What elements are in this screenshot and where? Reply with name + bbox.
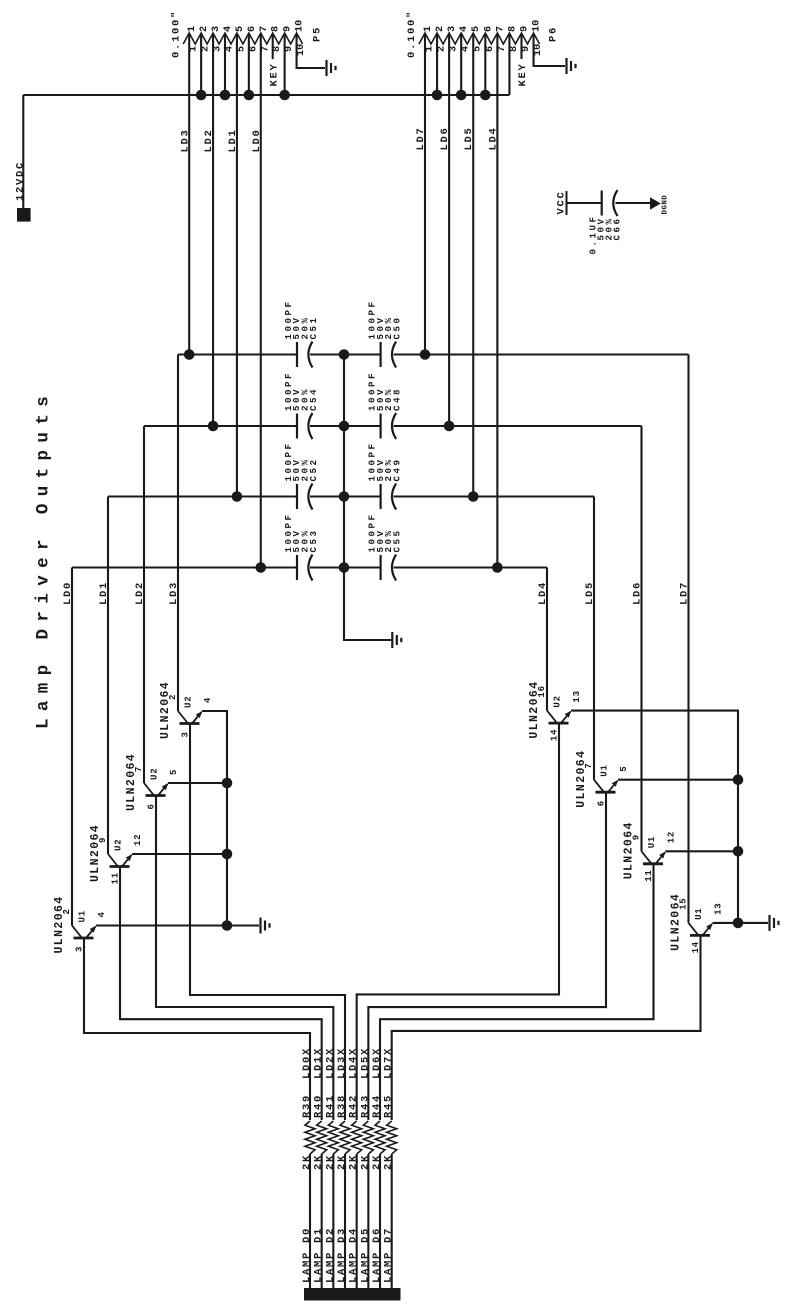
wire row4 right segment [394,566,547,568]
svg-text:C52: C52 [308,457,319,481]
wire row1 left segment [178,353,297,355]
capacitor C66 0.1UF [602,190,618,216]
svg-text:15: 15 [679,897,689,909]
svg-text:LAMP_D6: LAMP_D6 [371,1227,383,1283]
svg-text:4: 4 [459,26,470,32]
wire LD6 drop to U1 T7 [640,426,642,851]
svg-text:C51: C51 [308,315,319,339]
wire P5 pin5 LD1 [236,34,238,497]
transistor U2 ULN2064 (pins 9/12/11) [108,854,132,867]
svg-text:8: 8 [507,26,518,32]
svg-text:C53: C53 [308,528,319,552]
wire U2 T3 base to LD2X [156,796,333,1121]
svg-text:R45: R45 [383,1094,395,1118]
wire row1 middle segment [310,353,381,355]
wire R40 to LAMP_D1 [321,1154,323,1288]
svg-text:ULN2064: ULN2064 [89,824,102,882]
svg-text:U2: U2 [184,696,194,708]
ground center [392,632,401,648]
svg-text:C49: C49 [392,457,403,481]
svg-text:13: 13 [714,902,724,914]
svg-text:3: 3 [213,46,224,52]
svg-text:12: 12 [667,831,677,843]
wire row4 left segment [72,566,297,568]
svg-text:9: 9 [632,834,642,840]
svg-text:LD6: LD6 [439,126,451,150]
capacitor C55 100PF [381,555,397,581]
capacitor C51 100PF [297,342,313,368]
svg-text:R42: R42 [348,1094,360,1118]
junction row2 left [208,421,219,432]
resistor R40 2K [317,1121,327,1154]
wire P6 pin2 to rail [436,34,438,95]
junction left bus 2 [222,849,233,860]
svg-text:C50: C50 [392,315,403,339]
junction right bus 2 [733,846,744,857]
junction row3 right [468,491,479,502]
wire R42 to LAMP_D4 [356,1154,358,1288]
svg-text:13: 13 [572,690,582,702]
svg-text:R44: R44 [371,1094,383,1118]
svg-text:7: 7 [134,766,144,772]
svg-text:7: 7 [259,26,270,32]
wire U2 T2 emitter [132,853,227,855]
svg-text:LD4X: LD4X [348,1047,360,1079]
power symbol DGND arrow [650,197,661,210]
wire P6 pin9 KEY stub [520,34,522,59]
wire U1 T6 emitter [618,779,738,781]
wire U2 T3 emitter [168,782,227,784]
wire row3 middle segment [310,495,381,497]
svg-text:7: 7 [497,46,508,52]
svg-text:LD4: LD4 [487,126,499,150]
wire P5 pin8 KEY stub [272,34,274,59]
svg-text:U2: U2 [553,695,563,707]
junction row2 center [339,421,350,432]
svg-text:R43: R43 [359,1094,371,1118]
junction row1 left [184,349,195,360]
junction right bus 3 [733,918,744,929]
svg-text:4: 4 [461,46,472,52]
svg-text:R38: R38 [336,1094,348,1118]
svg-text:P5: P5 [312,26,324,42]
connector P6 body [419,33,540,44]
resistor R44 2K [375,1121,385,1154]
wire P5 pin10 to ground [297,34,325,68]
junction row2 right [444,421,455,432]
svg-text:U1: U1 [694,907,704,919]
svg-text:P6: P6 [548,26,560,42]
svg-text:2K: 2K [383,1154,395,1170]
svg-text:0.100": 0.100" [406,10,418,58]
svg-text:LD3: LD3 [168,581,180,605]
svg-text:2: 2 [62,908,72,914]
capacitor C53 100PF [297,555,313,581]
wire row2 middle segment [310,425,381,427]
junction row3 left [232,491,243,502]
wire P5 pin2 to rail [200,34,202,95]
transistor U1 ULN2064 (pins 15/13/14) [689,923,713,936]
junction left bus 1 [222,778,233,789]
svg-text:7: 7 [584,762,594,768]
svg-text:3: 3 [211,26,222,32]
svg-text:10: 10 [533,44,544,56]
svg-text:LAMP_D2: LAMP_D2 [324,1227,336,1283]
svg-text:VCC: VCC [556,190,568,214]
wire LD4 drop to U2 T5 [546,568,548,711]
svg-text:U1: U1 [647,836,657,848]
capacitor C52 100PF [297,484,313,510]
svg-text:LD1X: LD1X [313,1047,325,1079]
svg-text:1: 1 [187,26,198,32]
svg-text:2: 2 [199,26,210,32]
svg-text:6: 6 [248,46,259,52]
capacitor C54 100PF [297,413,313,439]
svg-text:R39: R39 [301,1094,313,1118]
svg-text:2K: 2K [336,1154,348,1170]
svg-text:U2: U2 [150,768,160,780]
transistor U2 ULN2064 (pins 2/4/3) [178,711,202,724]
svg-text:DGND: DGND [662,195,670,215]
wire P6 pin5 LD5 [472,34,474,497]
svg-text:LD1: LD1 [98,581,110,605]
wire U1 T7 base to LD6X [380,864,653,1120]
transistor U2 ULN2064 (pins 16/13/14) [547,711,571,724]
svg-text:1: 1 [189,46,200,52]
junction P5 pin9 on rail [279,90,290,101]
svg-text:C55: C55 [392,528,403,552]
svg-text:LD5: LD5 [584,581,596,605]
svg-text:10: 10 [296,44,307,56]
svg-text:1: 1 [423,26,434,32]
wire P6 pin8 to rail end [508,34,510,95]
wire VCC to C66 [567,202,602,204]
ground right emitters [770,915,779,931]
svg-text:6: 6 [247,26,258,32]
wire U1 T1 base to LD0X [84,938,310,1120]
wire row3 right segment [394,495,594,497]
svg-text:LD7: LD7 [679,581,691,605]
svg-text:2: 2 [201,46,212,52]
svg-text:LAMP_D4: LAMP_D4 [348,1227,360,1283]
svg-text:ULN2064: ULN2064 [575,750,588,808]
wire C66 to DGND [616,202,651,204]
wire row4 middle segment [310,566,381,568]
svg-text:LD0X: LD0X [301,1047,313,1079]
svg-text:16: 16 [537,685,547,697]
wire R45 to LAMP_D7 [391,1154,393,1288]
svg-text:9: 9 [521,46,532,52]
resistor R43 2K [363,1121,373,1154]
svg-text:1: 1 [425,46,436,52]
svg-text:9: 9 [284,46,295,52]
svg-text:LD6: LD6 [632,581,644,605]
transistor U1 ULN2064 (pins 7/5/6) [594,780,618,793]
ground left emitters [261,918,270,934]
svg-text:LD2: LD2 [203,128,215,152]
wire P6 pin10 to ground [534,34,565,66]
junction row4 center [339,562,350,573]
svg-text:7: 7 [260,46,271,52]
wire P6 pin6 to rail [484,34,486,95]
wire U1 T8 base to LD7X [392,935,701,1120]
wire LD0 drop to U1 T1 [71,568,73,926]
wire row2 right segment [394,425,642,427]
svg-text:9: 9 [519,26,530,32]
svg-text:2K: 2K [348,1154,360,1170]
svg-text:5: 5 [619,765,629,771]
wire +12V rail [23,94,509,96]
wire LD2 drop to U2 T3 [143,426,145,783]
svg-text:9: 9 [98,837,108,843]
wire left emitter bus [202,711,227,926]
wire P5 pin6 to rail [248,34,250,95]
svg-text:R40: R40 [313,1094,325,1118]
junction right bus 1 [733,774,744,785]
svg-text:LD5: LD5 [463,126,475,150]
wire P6 pin4 to rail [460,34,462,95]
svg-text:0.100": 0.100" [171,10,183,58]
resistor R42 2K [352,1121,362,1154]
junction P5 pin4 on rail [220,90,231,101]
svg-text:LD0: LD0 [251,128,263,152]
wire R41 to LAMP_D2 [332,1154,334,1288]
svg-text:R41: R41 [324,1094,336,1118]
wire U2 T4 base to LD3X [190,724,345,1121]
wire LD7 drop to U1 T8 [687,355,689,923]
wire U1 T1 emitter to ground [96,924,259,926]
svg-text:2K: 2K [359,1154,371,1170]
wire U1 T6 base to LD5X [368,792,606,1120]
svg-text:LD3: LD3 [179,128,191,152]
resistor R41 2K [328,1121,338,1154]
wire R44 to LAMP_D6 [379,1154,381,1288]
svg-text:LAMP_D5: LAMP_D5 [359,1227,371,1283]
svg-text:2K: 2K [301,1154,313,1170]
junction row1 center [339,349,350,360]
junction P5 pin2 on rail [196,90,207,101]
ground P5 [327,60,336,76]
wire P6 pin1 LD7 [424,34,426,355]
svg-text:ULN2064: ULN2064 [623,821,636,879]
ground P6 [567,58,576,74]
svg-text:LD2X: LD2X [324,1047,336,1079]
svg-text:6: 6 [483,26,494,32]
svg-text:KEY: KEY [517,62,529,86]
resistor R45 2K [387,1121,397,1154]
svg-text:12: 12 [133,834,143,846]
svg-text:5: 5 [471,26,482,32]
junction row1 right [420,349,431,360]
svg-text:U1: U1 [600,764,610,776]
wire row1 right segment [394,353,689,355]
junction P5 pin6 on rail [244,90,255,101]
svg-text:10: 10 [532,20,543,32]
svg-text:2: 2 [435,26,446,32]
transistor U2 ULN2064 (pins 7/5/6) [144,783,168,796]
wire U2 T5 base to LD4X [357,723,559,1120]
svg-text:4: 4 [223,26,234,32]
junction P6 pin4 on rail [456,90,467,101]
wire U1 T7 emitter [666,850,739,852]
svg-text:8: 8 [509,46,520,52]
svg-text:9: 9 [283,26,294,32]
power symbol VCC [566,191,568,215]
svg-text:6: 6 [485,46,496,52]
svg-text:LD5X: LD5X [359,1047,371,1079]
svg-text:Lamp Driver Outputs: Lamp Driver Outputs [34,389,54,729]
junction left bus 3 [222,920,233,931]
resistor R39 2K [305,1121,315,1154]
wire R38 to LAMP_D3 [344,1154,346,1288]
junction row4 left [255,562,266,573]
wire row3 left segment [108,495,297,497]
svg-text:C48: C48 [392,387,403,411]
svg-text:ULN2064: ULN2064 [159,681,172,739]
svg-text:ULN2064: ULN2064 [125,753,138,811]
junction row4 right [492,562,503,573]
off-page connector bar LAMP_D0..LAMP_D7 [304,1288,401,1301]
svg-text:2: 2 [168,694,178,700]
wire LD5 drop to U1 T6 [593,497,595,780]
wire R39 to LAMP_D0 [309,1154,311,1288]
svg-text:LAMP_D1: LAMP_D1 [313,1227,325,1283]
junction row3 center [339,491,350,502]
resistor R38 2K [340,1121,350,1154]
svg-text:2K: 2K [313,1154,325,1170]
svg-text:LD3X: LD3X [336,1047,348,1079]
svg-text:LD1: LD1 [227,128,239,152]
svg-text:LD0: LD0 [62,581,74,605]
wire P5 pin7 LD0 [260,34,262,568]
svg-text:12VDC: 12VDC [15,161,27,201]
svg-text:LD7: LD7 [415,126,427,150]
svg-text:10: 10 [295,20,306,32]
svg-text:ULN2064: ULN2064 [53,895,66,953]
wire LD3 drop to U2 T4 [177,355,179,712]
svg-text:4: 4 [224,46,235,52]
wire right emitter bus [571,711,738,923]
svg-text:U2: U2 [114,839,124,851]
svg-text:2K: 2K [371,1154,383,1170]
svg-text:C54: C54 [308,387,319,411]
svg-text:LAMP_D3: LAMP_D3 [336,1227,348,1283]
svg-text:5: 5 [169,769,179,775]
wire center ground column [344,355,391,641]
capacitor C50 100PF [381,342,397,368]
wire P5 pin3 LD2 [212,34,214,426]
wire R43 to LAMP_D5 [367,1154,369,1288]
transistor U1 ULN2064 (pins 9/12/11) [642,851,666,864]
svg-text:3: 3 [449,46,460,52]
wire P5 pin1 LD3 [188,34,190,355]
svg-text:2K: 2K [324,1154,336,1170]
capacitor C48 100PF [381,413,397,439]
connector P5 body [183,33,302,44]
svg-text:KEY: KEY [269,62,281,86]
wire LD1 drop to U2 T2 [107,497,109,855]
svg-text:8: 8 [272,46,283,52]
svg-text:7: 7 [495,26,506,32]
svg-text:8: 8 [271,26,282,32]
junction P6 pin2 on rail [432,90,443,101]
svg-text:3: 3 [447,26,458,32]
wire P6 pin3 LD6 [448,34,450,426]
svg-text:4: 4 [203,697,213,703]
svg-text:LAMP_D7: LAMP_D7 [383,1227,395,1283]
svg-text:LD4: LD4 [537,581,549,605]
svg-text:LD7X: LD7X [383,1047,395,1079]
svg-text:C66: C66 [612,216,623,240]
svg-text:5: 5 [236,46,247,52]
wire U1 T8 emitter to ground [713,922,769,924]
wire P5 pin4 to rail [224,34,226,95]
node 12VDC power input [22,95,24,208]
svg-text:5: 5 [473,46,484,52]
svg-text:LAMP_D0: LAMP_D0 [301,1227,313,1283]
capacitor C49 100PF [381,484,397,510]
transistor U1 ULN2064 (pins 2/4/3) [72,926,96,939]
wire P6 pin7 LD4 [496,34,498,568]
svg-text:LD2: LD2 [134,581,146,605]
svg-text:LD6X: LD6X [371,1047,383,1079]
wire U2 T2 base to LD1X [120,867,322,1121]
svg-text:U1: U1 [78,910,88,922]
wire row2 left segment [144,425,297,427]
svg-text:4: 4 [97,911,107,917]
wire P5 pin9 to rail [284,34,286,95]
junction P6 pin6 on rail [480,90,491,101]
svg-text:2: 2 [437,46,448,52]
svg-text:5: 5 [235,26,246,32]
